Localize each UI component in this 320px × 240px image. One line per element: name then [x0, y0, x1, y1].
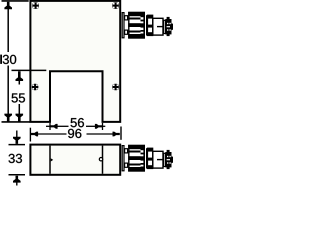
end block slit	[167, 26, 170, 27]
plug plate tab lower	[125, 30, 128, 34]
end block dot 1	[167, 23, 168, 24]
dim 56 line left outer stub	[46, 125, 50, 127]
dim 55 line lower segment	[18, 104, 20, 121]
neck band bottom	[148, 32, 153, 35]
barrel pin line	[157, 26, 167, 28]
dim 96 line left segment	[37, 133, 67, 135]
end block dot 4	[169, 29, 170, 30]
dim 56 line left segment	[57, 125, 69, 127]
side view ring detail on right seam	[99, 158, 102, 161]
connector plug (bottom view)	[122, 145, 173, 171]
plug body rib lower	[128, 31, 141, 33]
dim 130 label	[3, 55, 16, 64]
plug body rib upper	[128, 18, 141, 20]
dim 96 extension line left	[29, 128, 31, 142]
plug barrel	[153, 18, 163, 35]
dim 56 line right outer stub	[103, 125, 106, 127]
dim 33 extension line bottom	[9, 174, 26, 176]
dim 130 arrow up	[4, 2, 12, 10]
dim 130 line upper segment	[7, 2, 9, 52]
screw top-right	[112, 2, 119, 9]
dim 96 extension line right	[120, 127, 122, 140]
end connector nub top	[167, 17, 170, 20]
dim 55 line upper segment	[18, 72, 20, 85]
plug knurl column	[141, 12, 145, 38]
end collar	[163, 20, 165, 33]
dim 33 arrow bottom (pointing up)	[16, 182, 18, 186]
plug plate tab upper	[125, 16, 128, 20]
plug body band top	[128, 12, 141, 16]
dim 33 label	[9, 154, 22, 163]
dim 130 label "1" stem (clipped at page edge)	[0, 55, 2, 64]
dim 56 extension stub left	[49, 123, 51, 130]
end connector nub bottom	[167, 34, 170, 37]
dim 55 label	[12, 93, 25, 102]
dim 33 extension line top	[9, 144, 26, 146]
dim 96 line right segment	[87, 133, 114, 135]
screw top-left	[32, 2, 39, 9]
dim 55 arrow down	[16, 114, 24, 122]
knurl slit 3	[141, 28, 144, 30]
plug coupling body	[129, 12, 145, 38]
side view seam line right	[102, 146, 104, 174]
dim 56 arrow right	[95, 124, 102, 129]
knurl slit 1	[141, 17, 144, 19]
end connector block	[165, 19, 171, 34]
knurl slit 4	[141, 32, 144, 34]
dim 55 arrow up	[16, 71, 24, 81]
dim 56 line right segment	[86, 125, 96, 127]
dim 130 arrow down	[4, 114, 12, 122]
screw mid-right	[112, 84, 119, 91]
dim 130 line lower segment	[7, 66, 9, 121]
end tip	[172, 24, 174, 30]
plug ribbed neck	[148, 15, 153, 35]
end block dot 3	[167, 29, 168, 30]
dim 130 extension line top	[2, 0, 29, 2]
dim 96 label	[68, 129, 81, 138]
dim 33 arrow top (pointing down)	[16, 131, 18, 138]
dim 55 extension line	[12, 69, 47, 71]
dim 56 arrow left	[50, 124, 57, 129]
end block dot 2	[169, 23, 170, 24]
dim 130/55 extension line bottom (left of box bottom corner)	[2, 121, 30, 123]
screw mid-left	[32, 84, 39, 91]
plug mounting plate	[122, 13, 124, 38]
plug step ring	[146, 15, 148, 35]
connector plug (top view)	[122, 12, 173, 38]
knurl slit 2	[141, 21, 144, 23]
neck band mid	[148, 25, 153, 28]
side view latch triangle on left seam	[51, 158, 54, 161]
housing side view (bottom box)	[30, 145, 120, 175]
dim 96 arrow right	[113, 132, 120, 137]
dim 56 label	[71, 118, 84, 127]
neck band top	[148, 15, 153, 18]
side view seam line left	[49, 146, 51, 174]
dim 96 arrow left	[31, 132, 38, 137]
plug body band middle	[128, 23, 141, 27]
housing front view (top box with U-notch)	[30, 1, 120, 122]
dim 56 extension stub right	[102, 123, 104, 130]
plug body band bottom	[128, 34, 141, 38]
